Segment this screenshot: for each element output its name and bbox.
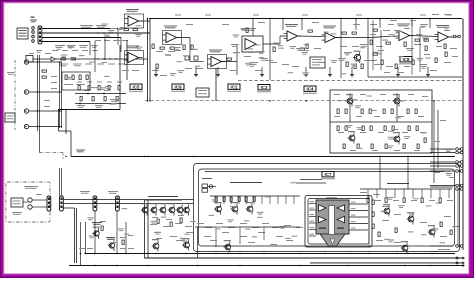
svg-text:IC9: IC9	[174, 84, 182, 89]
svg-text:IC8: IC8	[402, 57, 410, 62]
svg-text:IC2: IC2	[230, 84, 238, 89]
svg-text:IC3: IC3	[260, 85, 268, 90]
svg-text:IC5: IC5	[132, 84, 140, 89]
svg-text:IC4: IC4	[306, 86, 314, 91]
svg-text:IC7: IC7	[324, 172, 332, 177]
